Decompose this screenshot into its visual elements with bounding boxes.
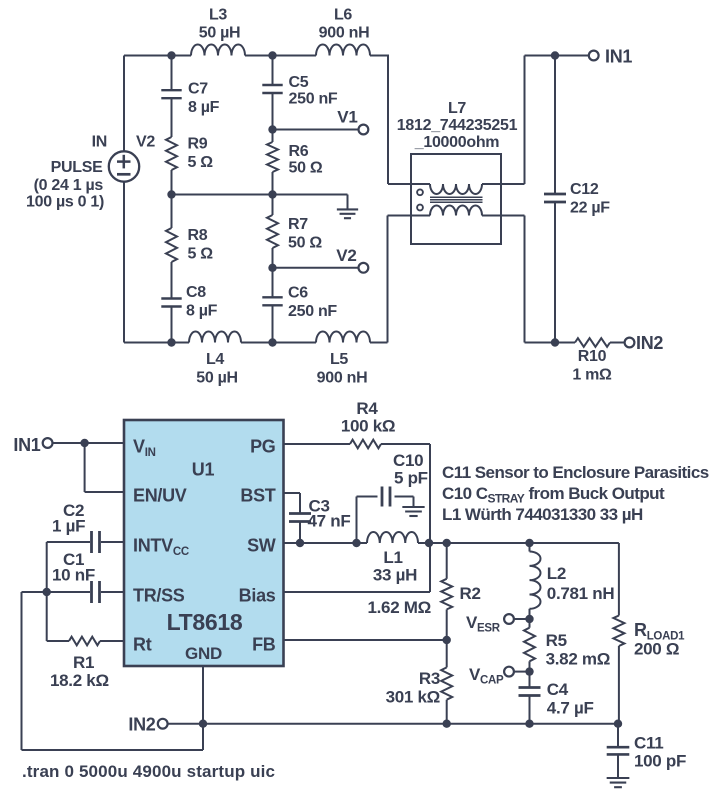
wire secondary left — [388, 215, 431, 217]
svg-text:C8: C8 — [186, 284, 206, 301]
svg-text:R6: R6 — [289, 143, 309, 160]
svg-text:5 pF: 5 pF — [394, 469, 428, 488]
svg-text:C5: C5 — [289, 74, 309, 91]
resistor R7 — [267, 195, 322, 268]
pin EN/UV label — [133, 486, 187, 506]
wire left bus — [46, 542, 48, 641]
svg-text:R9: R9 — [188, 136, 208, 153]
svg-text:R8: R8 — [188, 227, 208, 244]
wire V2 tap — [273, 267, 359, 269]
svg-text:IN1: IN1 — [605, 46, 632, 66]
svg-text:L1: L1 — [383, 548, 402, 567]
svg-text:8 µF: 8 µF — [186, 303, 218, 320]
capacitor C4 — [519, 672, 594, 724]
terminal Vesr — [466, 613, 514, 635]
node IN1 top — [551, 51, 559, 59]
svg-text:L2: L2 — [547, 564, 566, 583]
capacitor C10 — [357, 451, 428, 543]
svg-text:100 kΩ: 100 kΩ — [341, 417, 395, 436]
wire top rail mid — [245, 55, 316, 57]
svg-text:V2: V2 — [136, 134, 155, 151]
resistor R3 — [386, 640, 453, 724]
svg-text:LT8618: LT8618 — [167, 609, 243, 635]
svg-text:L7: L7 — [448, 100, 466, 117]
svg-text:C6: C6 — [288, 285, 308, 302]
transformer phase dot bottom — [417, 205, 423, 211]
svg-text:L4: L4 — [206, 351, 224, 368]
resistor R2 — [367, 543, 480, 640]
svg-text:47 nF: 47 nF — [308, 512, 351, 531]
wire secondary to IN2 — [525, 216, 576, 343]
svg-text:100 pF: 100 pF — [634, 752, 686, 771]
svg-text:Bias: Bias — [239, 586, 276, 606]
svg-text:L6: L6 — [334, 7, 352, 24]
svg-text:22 µF: 22 µF — [570, 200, 610, 217]
svg-text:1812_744235251: 1812_744235251 — [397, 117, 518, 134]
spice directive — [22, 762, 275, 781]
pin PG label — [250, 437, 275, 457]
svg-text:U1: U1 — [192, 460, 215, 480]
wire mid rail — [172, 194, 348, 196]
pin TR/SS label — [133, 586, 185, 606]
terminal Vcap — [469, 665, 514, 687]
svg-text:Rt: Rt — [133, 635, 152, 655]
wire top rail left — [124, 55, 191, 57]
wire primary to IN1 — [525, 56, 589, 185]
pin GND label — [185, 644, 222, 663]
inductor L6 — [316, 7, 370, 56]
resistor R5 — [524, 619, 610, 672]
transformer core — [430, 197, 483, 202]
svg-text:5 Ω: 5 Ω — [188, 246, 214, 263]
resistor R1 — [47, 637, 124, 690]
svg-text:200 Ω: 200 Ω — [634, 640, 679, 659]
terminal V1 — [337, 108, 368, 135]
resistor R6 — [267, 130, 323, 195]
transformer L7 label — [397, 100, 518, 151]
IC U1 LT8618 body — [124, 420, 284, 666]
svg-text:301 kΩ: 301 kΩ — [386, 688, 440, 707]
pin Bias label — [239, 586, 276, 606]
voltage source V2 — [26, 56, 155, 343]
svg-text:BST: BST — [240, 486, 275, 506]
svg-text:18.2 kΩ: 18.2 kΩ — [50, 671, 109, 690]
wire IN2 stub — [168, 723, 203, 725]
svg-text:GND: GND — [185, 644, 222, 663]
node L2 top — [525, 539, 533, 547]
svg-text:C12: C12 — [570, 181, 599, 198]
node FB — [443, 636, 451, 644]
ground C11 — [607, 778, 630, 787]
node left bus TR/SS — [43, 588, 51, 596]
svg-text:R5: R5 — [546, 631, 567, 650]
resistor R10 — [572, 338, 624, 383]
transformer phase dot top — [417, 189, 423, 195]
node mid rail right — [268, 190, 276, 198]
svg-text:L1 Würth 744031330 33 µH: L1 Würth 744031330 33 µH — [442, 505, 643, 524]
resistor Rload1 — [613, 543, 685, 724]
pin SW label — [247, 536, 276, 556]
svg-text:R1: R1 — [73, 653, 94, 672]
svg-text:C11: C11 — [634, 734, 663, 753]
svg-text:.tran 0 5000u 4900u startup ui: .tran 0 5000u 4900u startup uic — [22, 762, 275, 781]
wire top rail right — [370, 55, 388, 185]
svg-text:L5: L5 — [330, 351, 348, 368]
capacitor C5 — [262, 56, 338, 130]
svg-text:R4: R4 — [356, 399, 378, 418]
svg-text:1 mΩ: 1 mΩ — [572, 367, 612, 384]
node c5 top — [268, 51, 276, 59]
terminal IN2 top — [625, 333, 664, 353]
node IN1 branch — [80, 439, 88, 447]
wire bottom rail mid — [241, 342, 316, 344]
node c7 top — [167, 51, 175, 59]
node V2 — [268, 264, 276, 272]
node R3 bottom — [443, 720, 451, 728]
svg-text:C11 Sensor to Enclosure Parasi: C11 Sensor to Enclosure Parasitics — [442, 463, 709, 482]
wire primary left — [388, 183, 430, 185]
wire Bias — [284, 591, 431, 593]
IC designator U1 — [192, 460, 215, 480]
pin Vin label — [133, 437, 156, 460]
resistor R8 — [166, 195, 213, 263]
inductor L3 — [191, 7, 245, 56]
capacitor C8 — [161, 262, 217, 343]
wire V1 tap — [273, 129, 359, 131]
svg-text:VCAP: VCAP — [469, 665, 504, 687]
wire IN1 to Vin — [53, 442, 125, 444]
node V1 — [268, 125, 276, 133]
svg-text:1.62 MΩ: 1.62 MΩ — [367, 598, 431, 617]
pin Rt label — [133, 635, 152, 655]
svg-text:C10 CSTRAY from Buck Output: C10 CSTRAY from Buck Output — [442, 484, 665, 506]
resistor R4 — [284, 399, 431, 448]
svg-text:R10: R10 — [578, 348, 607, 365]
svg-text:250 nF: 250 nF — [289, 91, 338, 108]
svg-text:50 Ω: 50 Ω — [288, 235, 322, 252]
node L1 right — [425, 539, 433, 547]
resistor R9 — [166, 136, 213, 195]
pin INTVcc label — [133, 536, 189, 559]
capacitor C3 — [284, 493, 351, 543]
svg-text:50 µH: 50 µH — [199, 25, 241, 42]
svg-text:C7: C7 — [188, 81, 208, 98]
svg-text:V2: V2 — [336, 246, 356, 265]
wire to EN/UV — [85, 443, 124, 492]
terminal IN1 top — [589, 46, 633, 66]
capacitor C2 — [47, 501, 124, 553]
wire Vesr stub — [514, 618, 530, 620]
svg-text:C4: C4 — [547, 680, 569, 699]
svg-text:SW: SW — [247, 536, 276, 556]
svg-text:10 nF: 10 nF — [52, 566, 95, 585]
capacitor C11 — [607, 724, 686, 778]
wire FB — [284, 639, 447, 641]
svg-text:5 Ω: 5 Ω — [188, 154, 214, 171]
svg-text:100 µs 0 1): 100 µs 0 1) — [26, 194, 104, 211]
svg-text:4.7 µF: 4.7 µF — [547, 699, 594, 718]
inductor L1 — [367, 532, 619, 585]
svg-text:C10: C10 — [393, 451, 423, 470]
node R2 top — [443, 539, 451, 547]
note text — [442, 463, 709, 524]
svg-text:TR/SS: TR/SS — [133, 586, 185, 606]
node C4 bottom — [525, 720, 533, 728]
wire SW — [284, 542, 368, 544]
svg-text:1 µF: 1 µF — [52, 517, 85, 536]
node C10 branch — [352, 539, 360, 547]
node GND junction — [199, 720, 207, 728]
wire right vert PG-Bias — [429, 444, 431, 592]
wire Vcap stub — [514, 671, 530, 673]
inductor L5 — [316, 332, 370, 387]
capacitor C7 — [161, 56, 219, 138]
capacitor C1 — [47, 550, 124, 603]
svg-text:8 µF: 8 µF — [188, 99, 220, 116]
svg-text:900 nH: 900 nH — [317, 370, 368, 387]
node IN2 rail — [551, 338, 559, 346]
svg-text:33 µH: 33 µH — [373, 566, 417, 585]
svg-text:R7: R7 — [288, 216, 308, 233]
capacitor C6 — [262, 268, 337, 343]
pin BST label — [240, 486, 275, 506]
IC name LT8618 — [167, 609, 243, 635]
svg-text:V1: V1 — [337, 108, 357, 127]
wire gnd loop — [22, 592, 204, 750]
svg-text:(0 24 1 µs: (0 24 1 µs — [34, 177, 104, 194]
svg-text:R3: R3 — [419, 669, 440, 688]
wire bottom rail left — [124, 342, 189, 344]
node Vcap — [525, 667, 533, 675]
svg-text:PULSE: PULSE — [51, 159, 103, 176]
inductor L2 — [530, 543, 615, 619]
node mid rail left — [167, 190, 175, 198]
svg-text:R2: R2 — [460, 584, 481, 603]
svg-text:3.82 mΩ: 3.82 mΩ — [546, 650, 610, 669]
svg-text:VESR: VESR — [466, 613, 501, 635]
svg-text:IN1: IN1 — [13, 435, 40, 455]
node SW C3 — [296, 539, 304, 547]
svg-text:FB: FB — [252, 635, 276, 655]
wire IN2 rail — [203, 723, 618, 725]
terminal V2 — [336, 246, 368, 273]
wire bottom rail right — [370, 216, 388, 343]
ground C10 — [402, 497, 424, 517]
ground mid rail — [337, 195, 358, 219]
node C11 top — [614, 720, 622, 728]
svg-text:L3: L3 — [209, 7, 227, 24]
svg-text:PG: PG — [250, 437, 275, 457]
svg-text:900 nH: 900 nH — [319, 25, 370, 42]
pin FB label — [252, 635, 276, 655]
svg-text:IN: IN — [92, 134, 107, 151]
svg-text:IN2: IN2 — [128, 714, 155, 734]
svg-text:250 nF: 250 nF — [288, 303, 337, 320]
node c8 bottom — [167, 338, 175, 346]
transformer L7 box — [411, 154, 501, 244]
svg-text:0.781 nH: 0.781 nH — [547, 584, 615, 603]
terminal IN2 bottom — [128, 714, 167, 734]
node Vesr — [525, 615, 533, 623]
transformer secondary winding — [430, 206, 525, 216]
transformer primary winding — [430, 184, 525, 194]
svg-text:50 Ω: 50 Ω — [289, 160, 323, 177]
svg-text:_10000ohm: _10000ohm — [414, 134, 500, 151]
terminal IN1 bottom — [13, 435, 52, 455]
capacitor C12 — [544, 56, 610, 343]
svg-text:IN2: IN2 — [636, 333, 663, 353]
inductor L4 — [189, 332, 241, 387]
svg-text:50 µH: 50 µH — [196, 370, 238, 387]
svg-text:EN/UV: EN/UV — [133, 486, 187, 506]
node c6 bottom — [268, 338, 276, 346]
